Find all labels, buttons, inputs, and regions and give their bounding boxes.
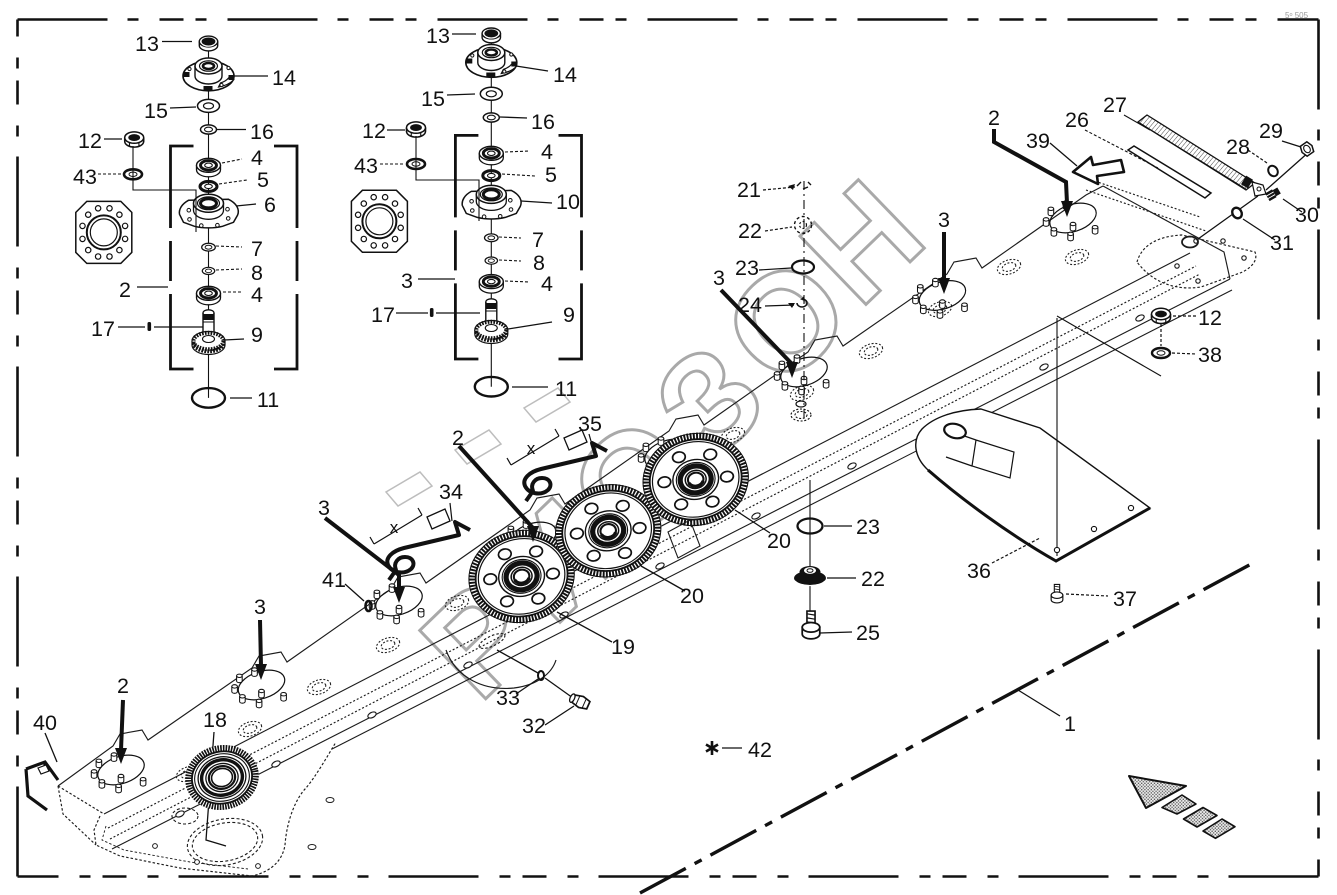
svg-text:4: 4 bbox=[541, 272, 553, 296]
svg-text:20: 20 bbox=[767, 529, 791, 553]
svg-text:16: 16 bbox=[531, 110, 555, 134]
svg-text:23: 23 bbox=[856, 515, 880, 539]
svg-text:16: 16 bbox=[250, 120, 274, 144]
svg-text:17: 17 bbox=[371, 303, 395, 327]
svg-text:3: 3 bbox=[318, 496, 330, 520]
svg-text:42: 42 bbox=[748, 738, 772, 762]
svg-text:24: 24 bbox=[738, 293, 762, 317]
svg-text:3: 3 bbox=[713, 266, 725, 290]
svg-text:14: 14 bbox=[272, 66, 296, 90]
svg-text:18: 18 bbox=[203, 708, 227, 732]
svg-text:3: 3 bbox=[254, 595, 266, 619]
svg-text:14: 14 bbox=[553, 63, 577, 87]
svg-text:x: x bbox=[390, 518, 399, 537]
svg-text:12: 12 bbox=[1198, 306, 1222, 330]
svg-text:2: 2 bbox=[452, 426, 464, 450]
svg-text:7: 7 bbox=[532, 228, 544, 252]
svg-text:43: 43 bbox=[354, 154, 378, 178]
svg-text:35: 35 bbox=[578, 412, 602, 436]
svg-text:25: 25 bbox=[856, 621, 880, 645]
svg-text:3: 3 bbox=[938, 208, 950, 232]
svg-text:33: 33 bbox=[496, 686, 520, 710]
svg-text:37: 37 bbox=[1113, 587, 1137, 611]
svg-text:31: 31 bbox=[1270, 231, 1294, 255]
svg-text:4: 4 bbox=[251, 146, 263, 170]
svg-text:4: 4 bbox=[251, 283, 263, 307]
svg-text:28: 28 bbox=[1226, 135, 1250, 159]
svg-text:12: 12 bbox=[78, 129, 102, 153]
svg-text:9: 9 bbox=[251, 323, 263, 347]
svg-text:15: 15 bbox=[421, 87, 445, 111]
svg-text:19: 19 bbox=[611, 635, 635, 659]
svg-text:5: 5 bbox=[545, 163, 557, 187]
svg-text:34: 34 bbox=[439, 480, 463, 504]
svg-text:2: 2 bbox=[117, 674, 129, 698]
svg-text:30: 30 bbox=[1295, 203, 1319, 227]
svg-text:22: 22 bbox=[861, 567, 885, 591]
svg-text:29: 29 bbox=[1259, 119, 1283, 143]
svg-text:26: 26 bbox=[1065, 108, 1089, 132]
svg-text:27: 27 bbox=[1103, 93, 1127, 117]
svg-text:20: 20 bbox=[680, 584, 704, 608]
svg-text:32: 32 bbox=[522, 714, 546, 738]
svg-text:1: 1 bbox=[1064, 712, 1076, 736]
svg-text:5: 5 bbox=[257, 168, 269, 192]
svg-text:x: x bbox=[527, 439, 536, 458]
svg-text:11: 11 bbox=[555, 377, 577, 401]
svg-text:13: 13 bbox=[135, 32, 159, 56]
svg-text:39: 39 bbox=[1026, 129, 1050, 153]
svg-text:21: 21 bbox=[737, 178, 761, 202]
svg-text:36: 36 bbox=[967, 559, 991, 583]
svg-text:11: 11 bbox=[257, 388, 279, 412]
svg-text:23: 23 bbox=[735, 256, 759, 280]
svg-text:2: 2 bbox=[119, 278, 131, 302]
svg-text:41: 41 bbox=[322, 568, 346, 592]
svg-text:12: 12 bbox=[362, 119, 386, 143]
svg-text:5ᵒ 505: 5ᵒ 505 bbox=[1285, 11, 1309, 20]
svg-text:17: 17 bbox=[91, 317, 115, 341]
svg-text:13: 13 bbox=[426, 24, 450, 48]
svg-text:43: 43 bbox=[73, 165, 97, 189]
svg-text:4: 4 bbox=[541, 140, 553, 164]
svg-text:3: 3 bbox=[401, 269, 413, 293]
svg-text:15: 15 bbox=[144, 99, 168, 123]
svg-text:22: 22 bbox=[738, 219, 762, 243]
svg-text:2: 2 bbox=[988, 106, 1000, 130]
svg-text:40: 40 bbox=[33, 711, 57, 735]
svg-text:7: 7 bbox=[251, 237, 263, 261]
svg-text:38: 38 bbox=[1198, 343, 1222, 367]
svg-text:9: 9 bbox=[563, 303, 575, 327]
svg-text:10: 10 bbox=[556, 190, 580, 214]
svg-text:6: 6 bbox=[264, 193, 276, 217]
svg-text:8: 8 bbox=[251, 261, 263, 285]
